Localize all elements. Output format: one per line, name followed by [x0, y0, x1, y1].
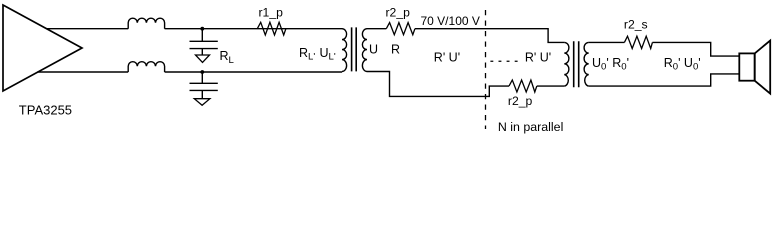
svg-text:N in parallel: N in parallel [498, 120, 563, 134]
transformer T2 core [574, 41, 579, 87]
wire top output from amplifier [46, 28, 128, 30]
node junction dot bottom [200, 70, 204, 74]
op-amp U1 TPA3255 amplifier triangle [3, 5, 82, 91]
wire T1 secondary top lead [367, 28, 386, 30]
svg-text:U0' R0': U0' R0' [592, 56, 629, 73]
ground top [196, 55, 210, 62]
resistor r2_p top [386, 23, 415, 35]
wire bottom from L2 to transformer T1 [165, 71, 342, 73]
inductor L2 bottom [128, 62, 164, 72]
transformer T1 secondary winding [362, 29, 367, 72]
wire T2 secondary bottom to speaker [589, 74, 740, 86]
inductor L1 top [128, 18, 164, 29]
svg-text:R0' U0': R0' U0' [664, 56, 701, 73]
wire T2 secondary top lead [589, 41, 625, 43]
svg-text:R: R [391, 43, 400, 57]
wire top from L1 to transformer T1 [165, 28, 342, 30]
resistor r2_p bottom [509, 80, 537, 92]
transformer T2 secondary winding [584, 42, 589, 86]
node junction dot top [200, 27, 204, 31]
capacitor C2 bottom [190, 72, 218, 99]
dashed separator line [485, 10, 487, 129]
ground bottom [194, 99, 210, 106]
resistor r2_s [624, 36, 652, 48]
transformer T1 primary winding [342, 29, 347, 72]
transformer T2 primary winding [564, 42, 569, 86]
svg-text:RL': RL' [299, 46, 315, 63]
wire T1 secondary bottom lead down and right [367, 72, 509, 97]
svg-text:UL': UL' [320, 46, 336, 63]
speaker LS1 box [739, 53, 754, 80]
speaker LS1 horn [755, 41, 771, 94]
wire bottom output from amplifier [37, 71, 128, 73]
svg-text:R' U': R' U' [525, 50, 551, 64]
svg-text:RL: RL [220, 49, 235, 66]
dotted continuation marks [490, 60, 518, 62]
svg-text:r2_p: r2_p [386, 6, 411, 20]
svg-text:r2_s: r2_s [624, 18, 648, 32]
svg-text:r1_p: r1_p [259, 6, 284, 20]
svg-text:TPA3255: TPA3255 [19, 102, 72, 117]
wire from r2_p bottom to T2 [537, 85, 565, 87]
svg-text:70 V/100 V: 70 V/100 V [421, 14, 480, 28]
svg-text:R' U': R' U' [434, 50, 460, 64]
svg-text:U: U [369, 43, 378, 57]
resistor r1_p [257, 22, 286, 35]
wire r2_s to speaker top [652, 42, 739, 56]
capacitor C1 top [190, 29, 218, 55]
wire top middle to transformer T2 [415, 29, 564, 43]
svg-text:r2_p: r2_p [508, 94, 533, 108]
transformer T1 core [352, 27, 357, 71]
